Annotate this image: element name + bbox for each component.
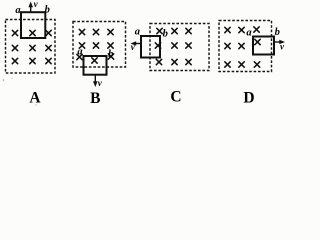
svg-text:a: a bbox=[135, 27, 140, 38]
svg-text:D: D bbox=[243, 90, 254, 107]
panel A field region (dashed boundary) bbox=[6, 20, 56, 74]
panel A velocity arrow (up) bbox=[28, 2, 33, 13]
panel D velocity arrow (right) bbox=[275, 40, 286, 45]
panel B conducting loop ab bbox=[84, 56, 107, 75]
svg-text:b: b bbox=[108, 49, 113, 60]
svg-text:A: A bbox=[29, 90, 41, 107]
svg-text:a: a bbox=[77, 47, 82, 58]
svg-text:C: C bbox=[170, 89, 181, 106]
svg-text:a: a bbox=[15, 5, 20, 16]
panel C velocity arrow (left) bbox=[131, 41, 142, 46]
panel C field crosses (B into page) bbox=[155, 28, 191, 64]
panel D conducting loop ab bbox=[253, 37, 274, 55]
panel D field crosses (B into page) bbox=[225, 27, 260, 67]
svg-text:a: a bbox=[246, 28, 251, 39]
panel B velocity arrow (down) bbox=[93, 76, 98, 88]
panel A field crosses (B into page) bbox=[12, 30, 51, 63]
svg-text:b: b bbox=[275, 27, 280, 38]
svg-text:B: B bbox=[90, 90, 100, 106]
svg-text:b: b bbox=[45, 5, 50, 16]
panel D field region (dashed boundary) bbox=[219, 21, 272, 72]
svg-text:b: b bbox=[163, 29, 168, 40]
panel C field region (dashed boundary) bbox=[150, 24, 209, 71]
panel C conducting loop ab bbox=[141, 36, 160, 58]
panel A conducting loop ab bbox=[21, 12, 45, 38]
panel B field crosses (B into page) bbox=[77, 29, 114, 63]
panel B field region (dashed boundary) bbox=[73, 22, 126, 68]
